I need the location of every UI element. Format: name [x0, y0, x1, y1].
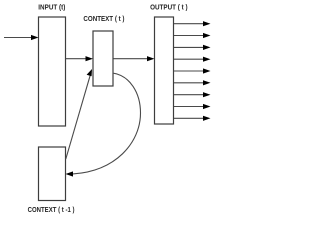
wire output arrow 4: [174, 57, 211, 62]
wire output arrow 9: [174, 116, 211, 121]
wire INPUT to CONTEXT arrow: [66, 56, 93, 61]
wire output arrow 3: [174, 45, 211, 50]
svg-text:CONTEXT ( t ): CONTEXT ( t ): [83, 14, 125, 23]
wire input arrow into INPUT: [4, 35, 39, 40]
wire output arrow 6: [174, 80, 211, 85]
svg-text:CONTEXT ( t -1 ): CONTEXT ( t -1 ): [28, 205, 75, 214]
wire output arrow 7: [174, 92, 211, 97]
wire output arrow 1: [174, 21, 211, 26]
svg-text:OUTPUT ( t ): OUTPUT ( t ): [150, 2, 188, 11]
wire output arrow 2: [174, 33, 211, 38]
wire diagonal CONTEXT(t-1) to CONTEXT(t) arrow: [66, 69, 92, 159]
wire curved CONTEXT(t) to CONTEXT(t-1) arrow: [66, 73, 141, 177]
wire output arrow 5: [174, 68, 211, 73]
svg-text:INPUT (t): INPUT (t): [38, 3, 65, 12]
box CONTEXT (t-1): [39, 147, 66, 201]
box INPUT (t): [39, 17, 66, 126]
box OUTPUT (t): [155, 17, 174, 124]
wire output arrow 8: [174, 104, 211, 109]
wire CONTEXT to OUTPUT arrow: [114, 56, 155, 61]
box CONTEXT (t): [93, 31, 113, 86]
